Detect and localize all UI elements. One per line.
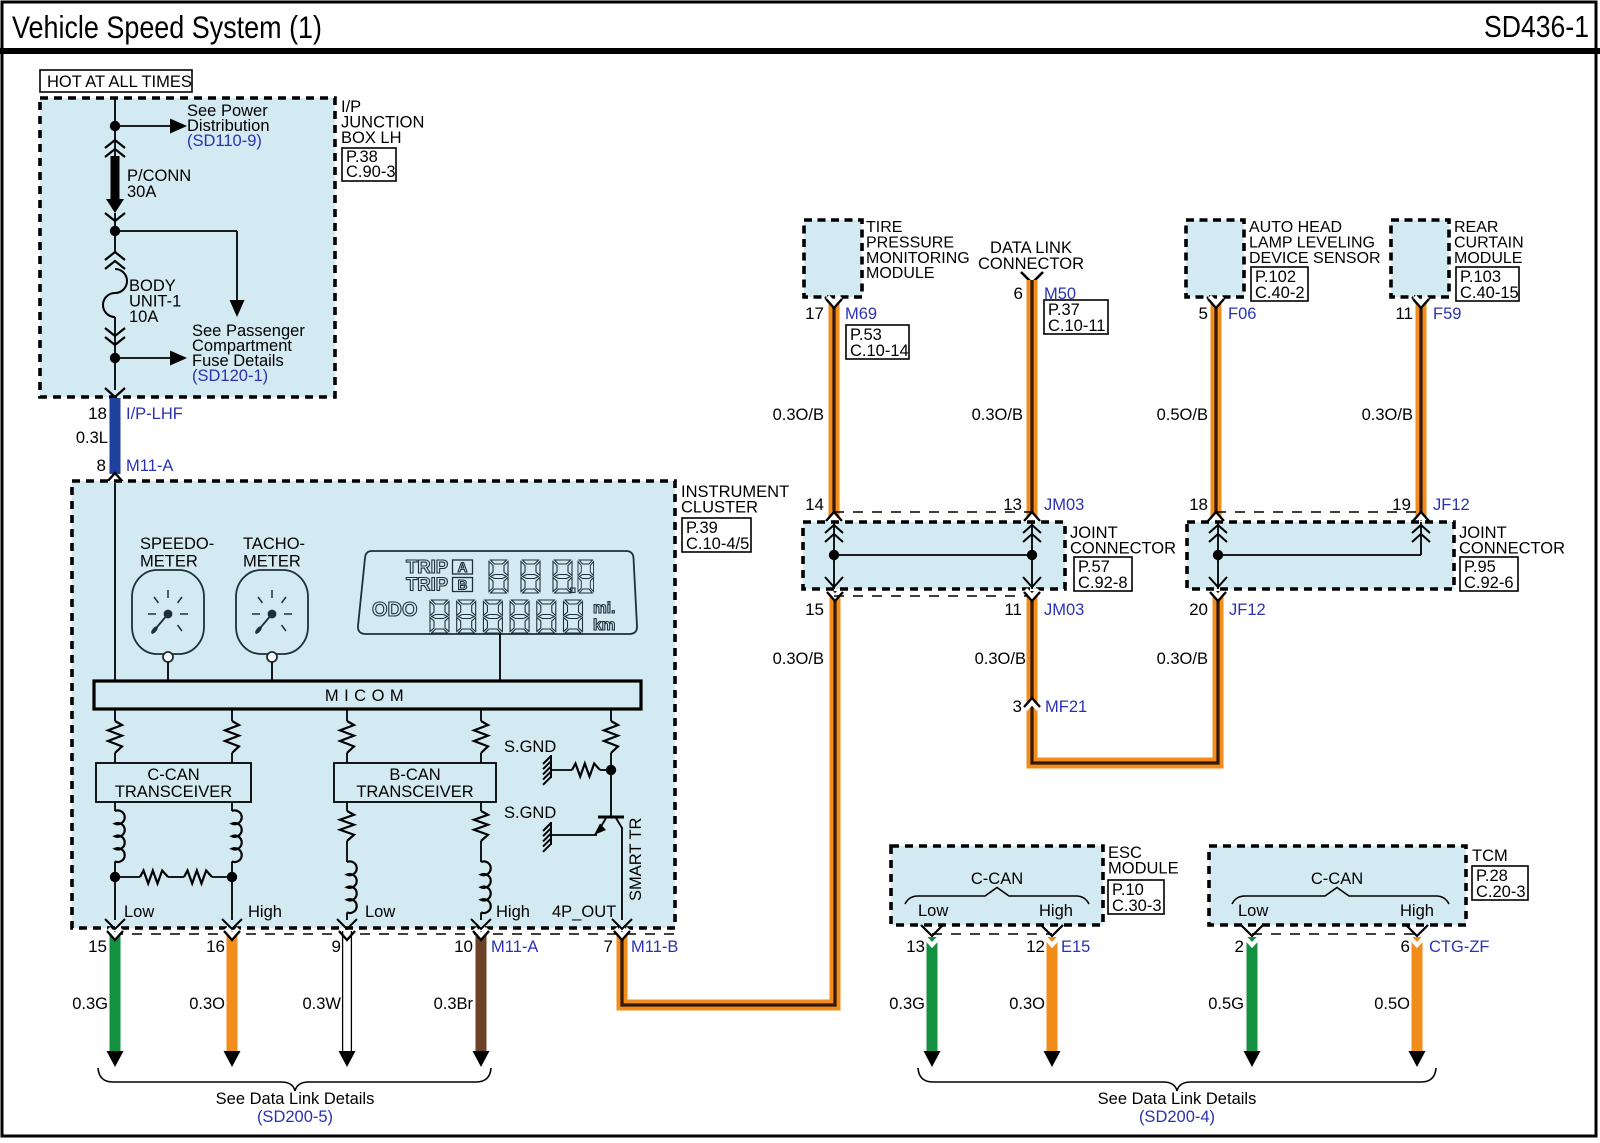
svg-text:BOX LH: BOX LH [341,129,402,147]
tire pressure monitoring module box [804,220,862,297]
svg-text:14: 14 [805,495,824,514]
svg-text:TRANSCEIVER: TRANSCEIVER [115,783,232,801]
svg-text:METER: METER [243,553,301,571]
node junction dot 1 [110,121,120,131]
ref box P.10 C.30-3 [1108,880,1164,914]
wire pin8 to MICOM [114,483,116,681]
JC1 right through-wire [1031,522,1033,589]
svg-text:C.10-11: C.10-11 [1048,317,1105,335]
wire 0.3O/B pin7 to JM03-15 [622,591,835,1005]
wire [480,802,482,811]
wire [480,841,482,862]
svg-text:High: High [496,903,530,921]
TCM exit connectors [1241,925,1263,936]
svg-text:(SD120-1): (SD120-1) [192,367,268,385]
joint connector 1 box [803,522,1065,589]
ref box P.102 C.40-2 [1251,267,1308,301]
resistor R1 [108,721,122,753]
JC1 left through-wire [833,522,835,589]
svg-text:(SD200-4): (SD200-4) [1139,1108,1215,1126]
svg-text:C.20-3: C.20-3 [1476,883,1526,901]
svg-text:MODULE: MODULE [866,265,934,282]
svg-text:9: 9 [332,937,341,956]
svg-text:0.3O/B: 0.3O/B [1362,406,1413,424]
wire MICOM output 1 [114,709,116,721]
arrow 0.3G ESC [924,1051,941,1067]
svg-text:6: 6 [1014,284,1023,303]
wire 0.3O [227,931,238,1052]
svg-text:4P_OUT: 4P_OUT [552,903,616,921]
7-seg digits trip [489,560,508,593]
svg-text:See Data Link Details: See Data Link Details [216,1090,375,1108]
svg-text:0.5O/B: 0.5O/B [1157,406,1208,424]
svg-text:C.10-4/5: C.10-4/5 [686,535,749,553]
svg-text:20: 20 [1189,600,1208,619]
svg-text:3: 3 [1013,697,1022,716]
svg-text:0.3L: 0.3L [76,429,108,447]
label HOT AT ALL TIMES [40,70,192,92]
wire 0.3O (ESC) [1047,937,1058,1052]
svg-text:JM03: JM03 [1044,496,1084,514]
svg-text:11: 11 [1004,600,1022,619]
svg-text:19: 19 [1392,495,1411,514]
svg-text:S.GND: S.GND [504,804,556,822]
svg-text:See Data Link Details: See Data Link Details [1098,1090,1257,1108]
wire [346,802,348,811]
svg-text:MODULE: MODULE [1454,250,1522,267]
ESC exit connectors [921,925,943,936]
svg-text:ODO: ODO [372,599,418,621]
wire 0.3L [110,398,121,474]
svg-text:SD436-1: SD436-1 [1484,9,1589,44]
wire to passenger fuse details [115,230,237,232]
arrow 0.5O [1409,1051,1426,1067]
title separator [0,48,1600,54]
mating line JM03 top [834,511,1032,513]
svg-text:HOT AT ALL TIMES: HOT AT ALL TIMES [47,73,192,91]
svg-text:0.3W: 0.3W [302,995,341,1013]
ref box P.38 C.90-3 [342,148,396,181]
wire [114,753,116,763]
inductor at x=481 [481,861,491,913]
LCD display outline [358,551,637,634]
instrument cluster box (dashed) [72,481,675,928]
rear curtain module box [1391,220,1449,297]
svg-text:I/P-LHF: I/P-LHF [126,405,183,423]
JC1 bus wire [834,554,1032,556]
node junction dot 3 [110,353,120,363]
svg-text:mi.: mi. [593,600,615,617]
inline connector MF21 [1026,703,1039,710]
wire arrow to fuse details text [115,357,170,359]
inductor L at x=232 [232,810,242,862]
svg-text:13: 13 [1003,495,1022,514]
svg-text:TACHO-: TACHO- [243,535,305,553]
node dot [227,872,237,882]
wire [480,753,482,763]
ref box P.53 C.10-14 [846,325,909,359]
connector chevrons below breaker [105,328,125,336]
svg-text:(SD200-5): (SD200-5) [257,1108,333,1126]
svg-text:CTG-ZF: CTG-ZF [1429,938,1489,956]
wire 0.3W [342,931,352,1052]
svg-text:7: 7 [604,937,613,956]
junction box exit connector [105,388,125,397]
ref box P.95 C.92-6 [1460,557,1518,591]
svg-text:Low: Low [124,903,154,921]
resistor R6 [572,764,600,777]
svg-text:10: 10 [454,937,473,956]
wire [346,841,348,862]
svg-text:C.10-14: C.10-14 [850,342,909,360]
arrow 0.3O ESC [1044,1051,1061,1067]
svg-text:High: High [248,903,282,921]
wire 0.3O/B from TPMS [829,302,840,521]
RC exit connector [1412,297,1430,306]
ref box P.28 C.20-3 [1472,866,1528,900]
svg-text:8: 8 [97,456,106,475]
mating line JM03 bottom [834,595,1032,597]
cluster exit connector x=622 [612,919,632,929]
transistor SMART TR [598,816,624,819]
svg-text:MICOM: MICOM [325,687,409,705]
wire tachometer to MICOM [271,662,273,681]
wire 0.3G (ESC) [927,937,938,1052]
svg-text:0.3O/B: 0.3O/B [975,650,1026,668]
wire MICOM output 3 [346,709,348,721]
cluster exit connector x=232 [222,919,242,929]
wire display to MICOM [499,634,501,681]
wire R5 to base [610,753,612,816]
svg-text:0.3O: 0.3O [189,995,225,1013]
wire gnd1 to resistor [551,769,572,771]
fuse P/CONN 30A (bar) [111,156,120,202]
svg-text:2: 2 [1235,937,1244,956]
ESC module box [891,846,1103,925]
wire B+ vertical [114,98,116,156]
connector chevron below fuse [105,213,125,221]
svg-text:MF21: MF21 [1045,698,1087,716]
mating line E15 [932,933,1052,935]
svg-text:B: B [458,578,468,593]
inductor L at x=115 [115,810,125,862]
wire 0.3O/B from DLC [1027,280,1038,521]
svg-text:E15: E15 [1061,938,1090,956]
svg-text:S.GND: S.GND [504,738,556,756]
DLC connector V [1021,272,1043,283]
svg-text:F06: F06 [1228,305,1256,323]
auto head lamp leveling device sensor box [1186,220,1244,297]
wire 0.3O/B from RC [1416,302,1427,521]
svg-text:(SD110-9): (SD110-9) [187,132,262,150]
node junction dot 2 [110,226,120,236]
svg-text:12: 12 [1026,937,1045,956]
wire resistor to node [600,769,611,771]
resistor at x=347 [340,811,354,841]
gauge tachometer [236,570,308,662]
cluster exit connector x=347 [337,919,357,929]
connector mating line M11 [113,933,674,935]
svg-text:Low: Low [1238,902,1268,920]
svg-text:METER: METER [140,553,198,571]
block B-CAN TRANSCEIVER [334,763,496,802]
svg-text:SMART TR: SMART TR [627,817,645,901]
svg-text:0.3O/B: 0.3O/B [773,406,824,424]
svg-text:C-CAN: C-CAN [1311,870,1363,888]
svg-text:MODULE: MODULE [1108,860,1179,878]
ref box P.103 C.40-15 [1456,267,1519,301]
connector chevrons above breaker [105,252,125,260]
svg-text:0.5O: 0.5O [1374,995,1410,1013]
svg-text:0.3G: 0.3G [889,995,925,1013]
svg-text:CLUSTER: CLUSTER [681,499,758,517]
svg-text:F59: F59 [1433,305,1461,323]
wire 0.3Br [476,931,487,1052]
svg-text:18: 18 [1189,495,1208,514]
wire MICOM output 2 [231,709,233,721]
arrow 0.3G [107,1051,124,1067]
brace see data link right [918,1068,1436,1091]
svg-text:M11-A: M11-A [126,457,173,475]
resistor R5 [604,721,618,753]
circuit breaker BODY UNIT-1 10A [103,269,127,317]
svg-text:6: 6 [1401,937,1410,956]
svg-text:5: 5 [1199,304,1208,323]
wire [480,912,482,920]
wire [114,861,116,920]
JC2 right entry [1420,522,1422,555]
svg-text:M69: M69 [845,305,877,323]
svg-text:km: km [593,617,615,634]
wire [346,753,348,763]
svg-text:Low: Low [918,902,948,920]
svg-text:15: 15 [88,937,107,956]
wire MICOM output 4 [480,709,482,721]
block C-CAN TRANSCEIVER [96,763,251,802]
wire 0.3G [110,931,121,1052]
svg-text:JM03: JM03 [1044,601,1084,619]
svg-text:0.3O: 0.3O [1009,995,1045,1013]
wire to power distribution arrow [115,125,170,127]
svg-text:JF12: JF12 [1229,601,1266,619]
svg-text:Vehicle Speed System (1): Vehicle Speed System (1) [12,9,322,45]
svg-text:13: 13 [906,937,925,956]
wire 0.5G [1247,937,1258,1052]
termination resistors [115,876,140,878]
svg-text:C.92-6: C.92-6 [1464,574,1514,592]
svg-text:0.5G: 0.5G [1208,995,1244,1013]
arrow 0.3Br [473,1051,490,1067]
wire [231,802,233,811]
JC2 left through-wire [1217,522,1219,589]
node base dot [606,765,616,775]
svg-text:C-CAN: C-CAN [147,766,199,784]
brace C-CAN ESC [905,888,1089,905]
wire MICOM output 5 [610,709,612,721]
svg-text:C.40-2: C.40-2 [1255,284,1305,302]
arrow 0.3O [224,1051,241,1067]
joint connector 2 box [1187,522,1454,589]
svg-text:TCM: TCM [1472,847,1508,865]
resistor R3 [340,721,354,753]
svg-text:CONNECTOR: CONNECTOR [1070,540,1176,558]
svg-text:High: High [1400,902,1434,920]
svg-text:TRANSCEIVER: TRANSCEIVER [356,783,473,801]
svg-text:0.3O/B: 0.3O/B [1157,650,1208,668]
wire [231,753,233,763]
svg-text:C.40-15: C.40-15 [1460,284,1519,302]
svg-text:SPEEDO-: SPEEDO- [140,535,214,553]
arrow 0.3W [339,1051,356,1067]
wire gnd2 to emitter [551,834,597,836]
arrow 0.5G [1244,1051,1261,1067]
svg-text:DEVICE SENSOR: DEVICE SENSOR [1249,250,1381,267]
cluster entry connector [109,478,122,485]
TPMS exit connector [825,297,843,306]
gauge speedometer [132,570,204,662]
svg-text:17: 17 [805,304,824,323]
cluster exit connector x=115 [105,919,125,929]
svg-text:0.3G: 0.3G [72,995,108,1013]
JC2 bus wire [1218,554,1421,556]
svg-text:C.90-3: C.90-3 [346,163,396,181]
svg-text:0.3O/B: 0.3O/B [773,650,824,668]
svg-text:18: 18 [88,404,107,423]
wire [346,912,348,920]
ref box P.37 C.10-11 [1044,300,1108,334]
svg-text:30A: 30A [127,183,156,201]
svg-text:16: 16 [206,937,225,956]
svg-text:0.3O/B: 0.3O/B [972,406,1023,424]
TCM box [1209,846,1466,925]
wire 0.5O/B from AHL [1211,302,1222,521]
7-seg digits odo [430,600,449,633]
wire speedometer to MICOM [167,662,169,681]
svg-text:Low: Low [365,903,395,921]
svg-text:M11-A: M11-A [491,938,538,956]
svg-text:C-CAN: C-CAN [971,870,1023,888]
node dot [110,872,120,882]
svg-text:TRIP: TRIP [406,574,448,595]
ground signal 1 [550,755,552,778]
svg-text:0.3Br: 0.3Br [434,995,474,1013]
svg-text:CONNECTOR: CONNECTOR [1459,540,1565,558]
ref box P.57 C.92-8 [1074,557,1132,591]
svg-text:C.30-3: C.30-3 [1112,897,1162,915]
resistor R2 [225,721,239,753]
wire 0.3O/B JM03-11 to JF12-20 [1032,591,1218,763]
svg-text:M11-B: M11-B [631,938,678,956]
I/P junction box LH (dashed) [40,98,335,397]
wire [231,861,233,920]
svg-text:JF12: JF12 [1433,496,1470,514]
svg-text:High: High [1039,902,1073,920]
ref box P.39 C.10-4/5 [682,518,751,552]
cluster exit connector x=481 [471,919,491,929]
AHL exit connector [1207,297,1225,306]
svg-text:A: A [458,560,468,575]
svg-text:C.92-8: C.92-8 [1078,574,1128,592]
wire 0.5O [1412,937,1423,1052]
svg-text:15: 15 [805,600,824,619]
svg-text:CONNECTOR: CONNECTOR [978,255,1084,273]
brace C-CAN TCM [1232,888,1449,905]
svg-text:11: 11 [1395,304,1413,323]
inductor at x=347 [347,861,357,913]
wire [114,802,116,811]
mating line CTG-ZF [1252,933,1417,935]
connector chevrons above fuse [105,140,125,148]
MICOM block [94,681,641,709]
resistor R4 [474,721,488,753]
svg-text:10A: 10A [129,308,158,326]
svg-text:B-CAN: B-CAN [389,766,440,784]
mating line JF12 top [1216,511,1421,513]
brace see data link left [98,1068,491,1091]
wire collector to pin 7 [621,827,623,920]
ground signal 2 [550,822,552,845]
resistor at x=481 [474,811,488,841]
